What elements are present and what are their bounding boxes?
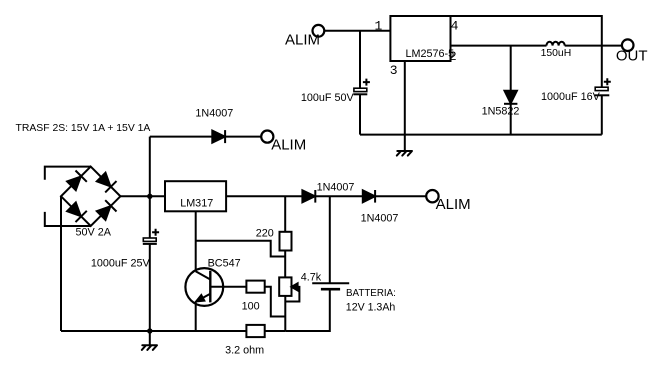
resistor R1 220 bbox=[280, 232, 292, 251]
transistor Q1 emitter bbox=[197, 294, 211, 302]
capacitor C1 bottom plate bbox=[143, 243, 157, 245]
bridge diode top-left bbox=[67, 177, 81, 191]
svg-text:12V 1.3Ah: 12V 1.3Ah bbox=[346, 302, 396, 314]
bridge diode top-left bar bbox=[76, 171, 87, 182]
wire pot bottom to rail bbox=[284, 296, 286, 331]
capacitor C2 bottom plate bbox=[354, 93, 368, 95]
terminal ALIM (top input) bbox=[313, 25, 325, 37]
svg-text:ALIM: ALIM bbox=[436, 196, 471, 213]
svg-text:1: 1 bbox=[375, 18, 383, 33]
capacitor C2 top plate bbox=[354, 88, 367, 91]
wire C3 to rail bbox=[601, 95, 603, 134]
svg-text:1N4007: 1N4007 bbox=[317, 182, 355, 194]
svg-text:1000uF 16V: 1000uF 16V bbox=[541, 91, 601, 103]
wire charger ALIM feed bbox=[150, 136, 213, 138]
terminal ALIM (charger out) bbox=[261, 131, 273, 143]
wire transformer stub bottom bbox=[45, 212, 91, 226]
wire pin1 from ALIM to LM2576 bbox=[324, 30, 390, 32]
potentiometer RV1 wiper tail bbox=[285, 287, 299, 302]
wire pin2 output bbox=[451, 45, 622, 47]
terminal OUT bbox=[622, 39, 634, 51]
svg-text:ALIM: ALIM bbox=[285, 32, 320, 49]
wire cap branch 16V bbox=[601, 46, 603, 88]
svg-text:BC547: BC547 bbox=[208, 258, 241, 270]
svg-text:1N5822: 1N5822 bbox=[482, 106, 520, 118]
potentiometer RV1 4.7k body bbox=[279, 277, 291, 296]
wire diode branch lower bbox=[510, 104, 512, 135]
svg-text:LM2576-5: LM2576-5 bbox=[406, 48, 455, 60]
svg-text:220: 220 bbox=[256, 227, 274, 239]
wire base resistor to pot junction bbox=[265, 287, 286, 317]
potentiometer RV1 wiper arrow bbox=[292, 283, 298, 290]
transistor Q1 BC547 circle bbox=[185, 268, 223, 306]
wire 220 branch top bbox=[284, 196, 286, 232]
bridge diode bottom-left bbox=[67, 202, 81, 216]
wire bridge minus down bbox=[60, 196, 62, 331]
diode D2 cathode bar bbox=[314, 190, 316, 203]
diode D4 cathode bar bbox=[504, 103, 517, 105]
resistor R2 100 bbox=[246, 281, 264, 293]
wire D3 to terminal bbox=[375, 195, 426, 197]
svg-text:4.7k: 4.7k bbox=[301, 271, 322, 283]
capacitor C1 top plate bbox=[143, 238, 156, 241]
svg-text:2: 2 bbox=[449, 49, 457, 64]
bridge diode top-right bbox=[97, 173, 111, 187]
battery BT1 minus plate bbox=[321, 288, 340, 291]
node junction dot on rail bbox=[147, 328, 152, 333]
inductor L1 150uH bbox=[547, 42, 565, 46]
wire diode branch upper bbox=[510, 46, 512, 91]
wire bridge plus to LM317 bbox=[120, 195, 165, 197]
svg-text:100: 100 bbox=[242, 301, 260, 313]
capacitor C1 1000uF 25V plus bbox=[152, 229, 159, 236]
wire pin3 ground bbox=[404, 61, 406, 151]
svg-text:150uH: 150uH bbox=[541, 48, 572, 59]
wire LM317 output bbox=[226, 195, 302, 197]
bridge diode top-right bar bbox=[105, 181, 116, 192]
svg-text:TRASF 2S: 15V 1A + 15V 1A: TRASF 2S: 15V 1A + 15V 1A bbox=[16, 123, 151, 134]
wire top rail pin4 bbox=[451, 16, 602, 46]
node junction dot at rectifier output bbox=[147, 194, 152, 199]
op-amp U1 LM2576 box bbox=[390, 16, 450, 61]
regulator U2 LM317 box bbox=[165, 181, 226, 211]
wire vertical feed to node bbox=[149, 137, 151, 238]
wire battery positive bbox=[329, 196, 331, 283]
terminal ALIM (battery out) bbox=[426, 190, 438, 202]
wire C1 to rail bbox=[149, 244, 151, 331]
wire bottom rail of top circuit bbox=[360, 134, 602, 136]
diode D3 1N4007 bbox=[363, 190, 375, 202]
svg-text:4: 4 bbox=[451, 19, 459, 34]
transistor Q1 emitter arrow bbox=[196, 295, 204, 301]
transistor Q1 collector bbox=[196, 271, 211, 279]
bridge rectifier B1 diamond bbox=[61, 167, 120, 226]
svg-text:1000uF 25V: 1000uF 25V bbox=[91, 257, 151, 269]
svg-text:3.2 ohm: 3.2 ohm bbox=[225, 345, 264, 357]
svg-text:LM317: LM317 bbox=[180, 197, 213, 209]
capacitor C3 1000uF 16V plus bbox=[604, 78, 611, 85]
resistor R3 3.2 ohm bbox=[246, 325, 264, 337]
svg-text:BATTERIA:: BATTERIA: bbox=[346, 288, 396, 299]
bridge diode bottom-right bar bbox=[105, 200, 116, 211]
wire base lead bbox=[210, 286, 246, 288]
svg-text:ALIM: ALIM bbox=[271, 137, 306, 154]
capacitor C3 top plate bbox=[595, 87, 608, 90]
ground top circuit bbox=[397, 151, 412, 156]
bridge diode bottom-left bar bbox=[76, 211, 87, 222]
diode D2 1N4007 bbox=[302, 190, 315, 202]
diode D3 cathode bar bbox=[374, 190, 376, 203]
wire C2 to rail bbox=[359, 94, 361, 134]
diode D4 1N5822 bbox=[505, 91, 517, 104]
wire ground rail bottom bbox=[61, 330, 285, 332]
wire transformer stub top bbox=[45, 167, 91, 180]
diode D1 cathode bar bbox=[224, 130, 226, 143]
wire D2 to D3 bbox=[315, 195, 363, 197]
capacitor C2 100uF 50V plus bbox=[363, 79, 370, 86]
transistor Q1 base bar bbox=[209, 271, 211, 303]
wire emitter to rail bbox=[195, 301, 197, 331]
svg-text:50V 2A: 50V 2A bbox=[76, 227, 112, 239]
svg-text:100uF 50V: 100uF 50V bbox=[301, 92, 355, 104]
diode D1 1N4007 bbox=[212, 131, 225, 143]
wire battery negative bbox=[285, 289, 330, 331]
svg-text:OUT: OUT bbox=[616, 48, 648, 65]
wire LM317 adj branch bbox=[196, 211, 286, 271]
capacitor C3 bottom plate bbox=[595, 94, 610, 96]
wire node input cap branch bbox=[359, 31, 361, 88]
wire D1 to terminal bbox=[225, 136, 261, 138]
svg-text:1N4007: 1N4007 bbox=[361, 213, 399, 225]
svg-text:3: 3 bbox=[390, 63, 398, 78]
svg-text:1N4007: 1N4007 bbox=[195, 108, 233, 120]
bridge diode bottom-right bbox=[97, 206, 111, 220]
wire 220 to pot bbox=[284, 251, 286, 278]
battery BT1 plus plate bbox=[312, 282, 349, 284]
ground bottom circuit bbox=[142, 331, 157, 350]
